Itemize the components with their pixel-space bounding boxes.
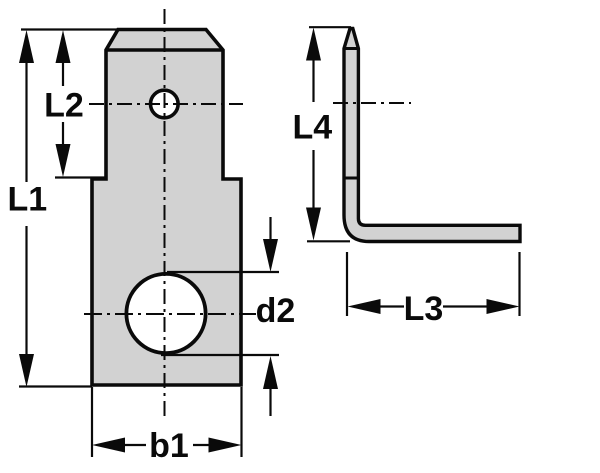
dimension d2 line: [269, 217, 271, 416]
d2 bottom tangent line: [161, 354, 279, 356]
L2 arrow up: [56, 30, 71, 63]
dimension L2 line: [62, 60, 64, 146]
front view body (tab terminal outline): [92, 30, 241, 386]
blade junction line: [344, 177, 358, 180]
L1 bottom extension line: [19, 385, 92, 387]
svg-text:L1: L1: [7, 181, 47, 219]
big hole: [126, 274, 205, 353]
svg-text:b1: b1: [149, 427, 189, 465]
L1 arrow up: [19, 30, 34, 63]
L1 arrow down: [19, 354, 34, 387]
svg-text:d2: d2: [256, 292, 296, 330]
d2 top tangent line: [167, 271, 279, 273]
L4 bottom extension line: [307, 240, 350, 242]
b1 left extension line: [91, 387, 93, 457]
horizontal centerline big hole: [84, 313, 256, 315]
dimension b1 line: [124, 444, 210, 446]
L4 arrow down: [306, 208, 321, 241]
dimension L4 line: [312, 58, 314, 208]
b1 right extension line: [240, 387, 242, 457]
L3 left extension line: [346, 252, 348, 316]
b1 arrow right: [209, 438, 242, 453]
top extension line L1/L2: [21, 28, 118, 30]
svg-text:L4: L4: [292, 109, 332, 147]
d2 arrow down: [263, 239, 278, 272]
L2 bottom extension line: [55, 176, 106, 178]
L3 right extension line: [518, 252, 520, 316]
L3 arrow left: [348, 299, 381, 314]
L4 arrow up: [306, 28, 321, 61]
horizontal centerline small hole: [89, 103, 243, 105]
dimension L3 line: [380, 305, 487, 307]
svg-text:L3: L3: [404, 290, 444, 328]
b1 arrow left: [92, 438, 125, 453]
horizontal centerline side view: [333, 102, 411, 104]
dimension L1 line: [25, 60, 27, 357]
chamfer base line: [106, 48, 223, 52]
L4 top extension line: [309, 26, 351, 28]
L3 arrow right: [487, 299, 520, 314]
small hole: [151, 90, 179, 118]
L2 arrow down: [56, 144, 71, 177]
side view body (bent blade): [344, 29, 520, 242]
vertical centerline front view: [164, 9, 166, 417]
d2 arrow up: [263, 356, 278, 389]
svg-text:L2: L2: [44, 87, 84, 125]
blade tip base line: [344, 47, 358, 50]
